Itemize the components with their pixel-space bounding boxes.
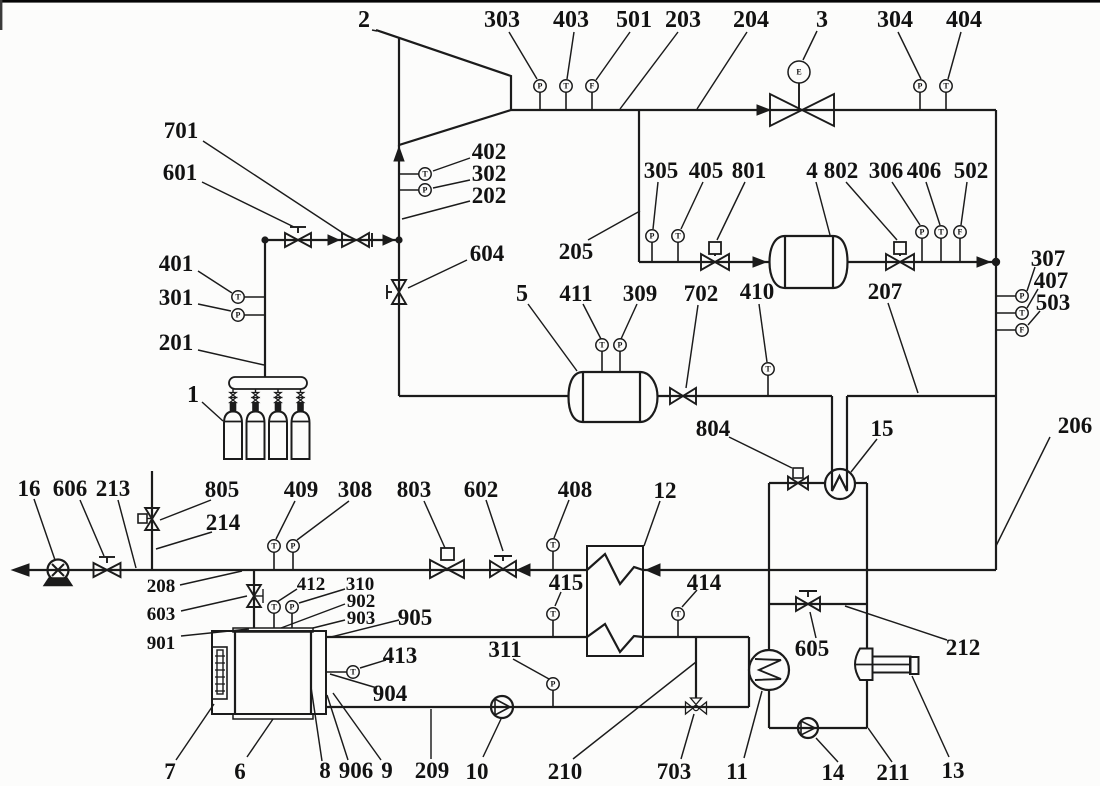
svg-text:2: 2 xyxy=(358,7,370,33)
svg-text:408: 408 xyxy=(558,477,593,502)
svg-text:3: 3 xyxy=(816,7,828,33)
vessel 5 xyxy=(569,372,658,422)
arrow before valve 3 xyxy=(757,105,770,115)
svg-text:412: 412 xyxy=(297,574,326,595)
svg-text:T: T xyxy=(1019,309,1025,318)
valve 604 xyxy=(392,280,406,304)
valve 603 xyxy=(247,585,261,607)
svg-text:F: F xyxy=(1020,326,1025,335)
svg-text:805: 805 xyxy=(205,477,240,502)
turbine 2 xyxy=(376,30,511,145)
svg-text:P: P xyxy=(423,186,428,195)
svg-text:14: 14 xyxy=(822,760,846,785)
svg-text:401: 401 xyxy=(159,251,194,276)
svg-text:P: P xyxy=(538,82,543,91)
svg-text:503: 503 xyxy=(1036,290,1071,315)
cylinder 2 valve xyxy=(252,393,258,398)
pump 10 xyxy=(491,696,513,718)
wire drop to chamber with valve 603 xyxy=(253,570,255,628)
wire vertical x=749 to HX11 xyxy=(748,637,750,707)
svg-text:210: 210 xyxy=(548,759,583,784)
instrument 401 (T) xyxy=(244,296,265,298)
svg-text:12: 12 xyxy=(654,478,677,503)
wire vent riser x=152 (line 214) xyxy=(151,471,153,570)
svg-text:P: P xyxy=(618,341,623,350)
arrow after valve 602 xyxy=(517,564,530,576)
svg-text:702: 702 xyxy=(684,281,719,306)
svg-text:306: 306 xyxy=(869,158,904,183)
wire branch x=696 to three-way valve 703 xyxy=(695,637,697,698)
svg-text:T: T xyxy=(675,232,681,241)
svg-text:208: 208 xyxy=(147,576,176,597)
svg-text:6: 6 xyxy=(234,759,246,784)
svg-text:T: T xyxy=(550,541,556,550)
svg-text:P: P xyxy=(918,82,923,91)
svg-text:13: 13 xyxy=(942,758,965,783)
valve 606 xyxy=(94,563,121,577)
arrow into junction xyxy=(977,257,990,267)
arrow at suction line outlet xyxy=(12,564,29,576)
svg-text:905: 905 xyxy=(398,605,433,630)
wire vessel 5 outlet to HX15 left leg (line 207) xyxy=(657,395,832,397)
svg-text:804: 804 xyxy=(696,416,731,441)
cylinder 3 neck xyxy=(275,403,282,412)
svg-text:303: 303 xyxy=(484,7,520,33)
wire HX15 right leg to right header xyxy=(847,395,996,397)
wire chamber loop supply y=637 (line 905/210) xyxy=(326,636,587,638)
svg-text:414: 414 xyxy=(687,570,722,595)
svg-text:803: 803 xyxy=(397,477,432,502)
svg-text:906: 906 xyxy=(339,758,374,783)
page left edge tick xyxy=(0,0,2,30)
junction node at x=399 xyxy=(395,236,402,243)
instrument 303 (P) xyxy=(539,92,541,110)
instrument 410 (T) xyxy=(767,375,769,396)
svg-text:T: T xyxy=(271,542,277,551)
svg-text:203: 203 xyxy=(665,7,701,33)
svg-text:T: T xyxy=(765,365,771,374)
instrument 301 (P) xyxy=(244,314,265,316)
svg-text:605: 605 xyxy=(795,636,830,661)
svg-text:201: 201 xyxy=(159,330,194,355)
cylinder 2 neck xyxy=(252,403,259,412)
svg-text:T: T xyxy=(563,82,569,91)
svg-text:9: 9 xyxy=(381,758,393,783)
svg-text:603: 603 xyxy=(147,604,176,625)
svg-text:8: 8 xyxy=(319,758,331,783)
cylinder 4 neck xyxy=(297,403,304,412)
svg-text:209: 209 xyxy=(415,758,450,783)
cylinder 3 valve xyxy=(275,393,281,398)
instrument 414 (T) xyxy=(677,620,679,637)
wire turbine feed vertical x=399 xyxy=(398,145,400,396)
instrument 304 (P) xyxy=(919,92,921,110)
solenoid valve 802 xyxy=(894,242,906,254)
HX12 upper coil xyxy=(587,554,643,584)
svg-text:P: P xyxy=(920,228,925,237)
wire 205 branch line y=262 (right of vessel 4) xyxy=(847,261,996,263)
arrow into turbine xyxy=(394,147,404,161)
gas cylinder 1 xyxy=(224,412,242,460)
instrument 305 (P) xyxy=(651,242,653,262)
junction node at right header xyxy=(992,258,1000,266)
chamber outer shell 6 xyxy=(212,631,326,714)
instrument 406 (T) xyxy=(940,238,942,262)
svg-text:T: T xyxy=(350,668,356,677)
valve 605 xyxy=(796,597,820,611)
control valve 3 with actuator E xyxy=(798,83,800,110)
instrument 402 (T) xyxy=(399,173,419,175)
svg-text:305: 305 xyxy=(644,158,679,183)
svg-text:214: 214 xyxy=(206,510,241,535)
instrument 408 (T) xyxy=(552,551,554,570)
wire refrigeration loop right vertical x=867 xyxy=(866,483,868,649)
cylinder 3 drop line xyxy=(277,389,279,393)
arrow before check valve 701 xyxy=(328,235,339,245)
wire main return line y=570 left of HX12 (line 208) xyxy=(26,569,587,571)
wire drop to 205 loop at x=639 xyxy=(638,110,640,262)
svg-text:410: 410 xyxy=(740,279,775,304)
svg-text:602: 602 xyxy=(464,477,499,502)
svg-text:207: 207 xyxy=(868,279,903,304)
instrument 306 (P) xyxy=(921,238,923,262)
svg-text:213: 213 xyxy=(96,476,131,501)
arrow before node 399 xyxy=(383,235,394,245)
instrument 413 (T) xyxy=(326,671,347,673)
svg-text:601: 601 xyxy=(163,160,198,185)
wire right header vertical 996 xyxy=(995,110,997,570)
svg-text:E: E xyxy=(796,68,801,77)
svg-text:604: 604 xyxy=(470,241,505,266)
svg-text:202: 202 xyxy=(472,183,507,208)
wire main return line y=570 right of HX12 (line 206) xyxy=(643,569,996,571)
svg-text:405: 405 xyxy=(689,158,724,183)
svg-text:10: 10 xyxy=(466,759,489,784)
page top border bar xyxy=(0,0,1100,3)
svg-text:211: 211 xyxy=(876,760,909,785)
pump 14 xyxy=(798,718,818,738)
instrument 309 (P) xyxy=(619,351,621,372)
svg-text:409: 409 xyxy=(284,477,319,502)
instrument 412 (T) xyxy=(273,613,275,628)
svg-text:502: 502 xyxy=(954,158,989,183)
svg-text:T: T xyxy=(943,82,949,91)
cylinder 2 drop line xyxy=(255,389,257,393)
svg-text:406: 406 xyxy=(907,158,942,183)
svg-text:311: 311 xyxy=(488,637,521,662)
junction node left header xyxy=(261,236,268,243)
svg-text:P: P xyxy=(291,542,296,551)
vacuum pump 16 xyxy=(48,560,69,581)
wire manifold riser x=265 xyxy=(264,240,266,377)
svg-text:16: 16 xyxy=(18,476,41,501)
wire gas supply header y=240 xyxy=(265,239,399,241)
arrow into HX12 from line 206 xyxy=(646,564,660,576)
wire 205 branch line y=262 (left of vessel 4) xyxy=(639,261,770,263)
chamber bottom plate 906 xyxy=(233,714,313,719)
chamber top plate 901 xyxy=(233,628,313,632)
wire HX15 dip legs and coil W xyxy=(832,396,847,491)
heat exchanger 11 xyxy=(749,650,789,690)
svg-text:304: 304 xyxy=(877,7,913,33)
valve 803 solenoid xyxy=(441,548,454,560)
arrow before vessel 4 xyxy=(753,257,766,267)
valve 702 xyxy=(670,388,696,404)
valve 804 solenoid xyxy=(793,468,803,478)
svg-text:T: T xyxy=(422,170,428,179)
svg-text:802: 802 xyxy=(824,158,859,183)
svg-text:T: T xyxy=(938,228,944,237)
svg-text:T: T xyxy=(235,293,241,302)
chamber inner wall left 8 xyxy=(234,631,236,714)
wire refrigeration loop bottom y=728 xyxy=(769,727,867,729)
svg-text:403: 403 xyxy=(553,7,589,33)
svg-text:413: 413 xyxy=(383,643,418,668)
svg-text:411: 411 xyxy=(559,281,592,306)
wire refrigeration loop top y=483 xyxy=(769,482,825,484)
svg-text:404: 404 xyxy=(946,7,982,33)
instrument 407 (T) xyxy=(996,312,1016,314)
svg-text:4: 4 xyxy=(806,158,818,183)
svg-text:415: 415 xyxy=(549,570,584,595)
instrument 302 (P) xyxy=(399,189,419,191)
instrument 404 (T) xyxy=(945,92,947,110)
svg-text:204: 204 xyxy=(733,7,769,33)
wire refrigeration loop left vertical x=769 xyxy=(768,483,770,650)
svg-text:205: 205 xyxy=(559,239,594,264)
svg-text:606: 606 xyxy=(53,476,88,501)
cylinder 4 valve xyxy=(297,393,303,398)
svg-text:904: 904 xyxy=(373,681,408,706)
svg-text:212: 212 xyxy=(946,635,981,660)
cylinder 1 drop line xyxy=(232,389,234,393)
svg-text:206: 206 xyxy=(1058,413,1093,438)
valve 602 xyxy=(490,561,516,577)
instrument 503 (F) xyxy=(996,329,1016,331)
svg-text:F: F xyxy=(590,82,595,91)
svg-text:P: P xyxy=(650,232,655,241)
cylinder 4 drop line xyxy=(300,389,302,393)
cylinder 1 neck xyxy=(230,403,237,412)
instrument 405 (T) xyxy=(677,242,679,262)
svg-text:903: 903 xyxy=(347,608,376,629)
svg-text:P: P xyxy=(551,680,556,689)
gas cylinder 3 xyxy=(269,412,287,460)
instrument 308 (P) xyxy=(292,552,294,570)
svg-text:T: T xyxy=(599,341,605,350)
three-way valve 703 xyxy=(686,702,694,714)
check valve 701 xyxy=(342,233,356,247)
gas cylinder 2 xyxy=(247,412,265,460)
instrument 415 (T) xyxy=(552,620,554,637)
chamber inner wall right 9 xyxy=(310,631,312,714)
svg-text:1: 1 xyxy=(187,382,199,408)
instrument 311 (P) xyxy=(552,690,554,707)
instrument 502 (F) xyxy=(959,238,961,262)
relief valve 805 xyxy=(145,508,159,530)
svg-text:T: T xyxy=(675,610,681,619)
instrument 409 (T) xyxy=(273,552,275,570)
instrument 411 (T) xyxy=(601,351,603,372)
instrument 310 (P) xyxy=(291,613,293,628)
svg-text:5: 5 xyxy=(516,281,528,307)
gas manifold 201 xyxy=(229,377,307,389)
solenoid valve 801 xyxy=(709,242,721,254)
wire main steam line (turbine outlet, y=110) xyxy=(511,109,996,111)
gas cylinder 4 xyxy=(292,412,310,460)
instrument 501 (F) xyxy=(591,92,593,110)
svg-text:F: F xyxy=(958,228,963,237)
heat exchanger 15 xyxy=(825,469,855,499)
heat exchanger 12 shell xyxy=(587,546,643,656)
svg-text:P: P xyxy=(236,311,241,320)
svg-text:703: 703 xyxy=(657,759,692,784)
valve 601 xyxy=(285,233,311,247)
level gauge 7 housing xyxy=(212,647,227,699)
svg-text:T: T xyxy=(550,610,556,619)
svg-text:7: 7 xyxy=(164,759,176,784)
level gauge 7 tube xyxy=(217,650,223,694)
svg-text:308: 308 xyxy=(338,477,373,502)
wire bypass line 212 with valve 605 xyxy=(769,603,867,605)
svg-text:11: 11 xyxy=(726,759,748,784)
svg-text:P: P xyxy=(1020,292,1025,301)
cylinder 1 valve xyxy=(230,393,236,398)
svg-text:15: 15 xyxy=(871,416,894,441)
svg-text:301: 301 xyxy=(159,285,194,310)
vessel 4 xyxy=(770,236,848,288)
wire chamber loop return y=707 (line 209) xyxy=(326,706,749,708)
svg-text:901: 901 xyxy=(147,633,176,654)
instrument 403 (T) xyxy=(565,92,567,110)
HX12 lower coil xyxy=(587,624,643,652)
svg-text:801: 801 xyxy=(732,158,767,183)
svg-text:501: 501 xyxy=(616,7,652,33)
svg-text:T: T xyxy=(271,603,277,612)
expansion tank 13 xyxy=(855,649,873,681)
svg-text:309: 309 xyxy=(623,281,658,306)
svg-text:P: P xyxy=(290,603,295,612)
instrument 307 (P) xyxy=(996,295,1016,297)
wire from x=399 to vessel 5 xyxy=(399,395,569,397)
svg-text:701: 701 xyxy=(164,118,199,143)
